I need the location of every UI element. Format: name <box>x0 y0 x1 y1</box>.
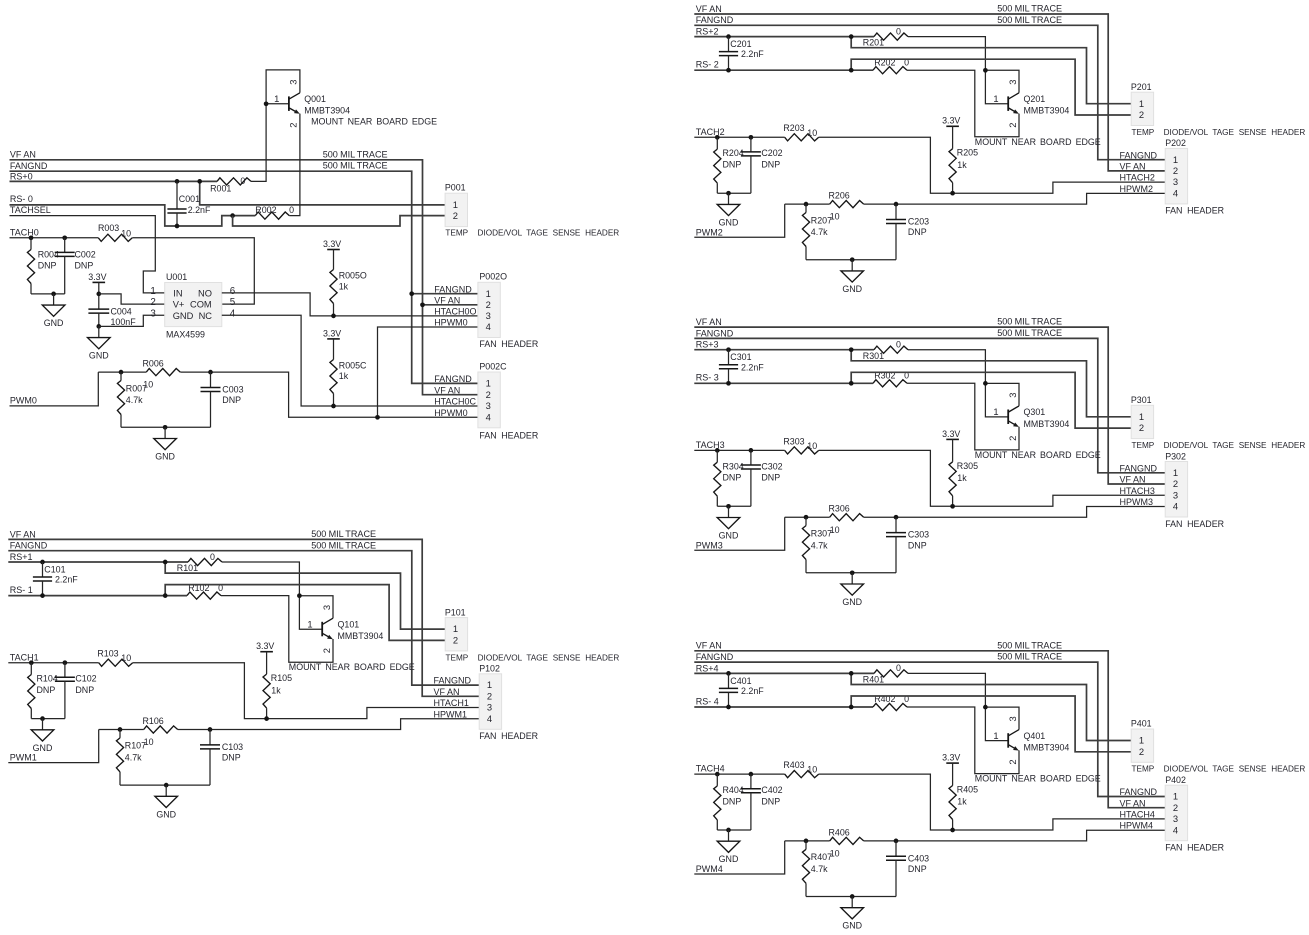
svg-text:RS- 2: RS- 2 <box>696 60 719 70</box>
svg-text:1: 1 <box>993 730 998 741</box>
ground <box>717 506 740 540</box>
wire R202 to Q emitter loop <box>907 70 1019 137</box>
svg-text:FANGND: FANGND <box>434 374 472 384</box>
capacitor C401 2.2nF <box>719 673 764 707</box>
svg-text:P001: P001 <box>445 182 466 192</box>
junction node RS+ / C top <box>726 34 731 39</box>
svg-text:0: 0 <box>896 340 901 350</box>
svg-text:PWM4: PWM4 <box>696 864 723 874</box>
svg-text:DNP: DNP <box>908 540 927 550</box>
wire sense line to P101 pin 2 <box>165 585 445 641</box>
svg-text:R405: R405 <box>957 785 978 795</box>
wire Q collector loop <box>985 383 1019 406</box>
svg-text:3: 3 <box>487 702 492 713</box>
wire net FANGND (channel 3) <box>694 338 1165 472</box>
junction node VF AN <box>420 302 425 307</box>
svg-text:2: 2 <box>150 297 155 308</box>
svg-text:P202: P202 <box>1165 138 1186 148</box>
junction node R206/R207 <box>118 727 123 732</box>
svg-text:4: 4 <box>1173 188 1178 199</box>
wire TACH to header P102 pin 3 <box>133 663 480 719</box>
svg-text:2.2nF: 2.2nF <box>741 686 764 696</box>
svg-text:FANGND: FANGND <box>696 328 734 338</box>
svg-text:5: 5 <box>230 297 236 308</box>
ground <box>155 785 178 819</box>
connector P402 <box>1165 775 1187 841</box>
svg-text:3: 3 <box>1007 393 1018 398</box>
wire sense line to P301 pin 1 <box>851 350 1131 417</box>
wire net RS+3 <box>694 349 874 351</box>
svg-text:P402: P402 <box>1165 775 1186 785</box>
svg-text:4: 4 <box>230 308 236 319</box>
junction node RS+ / C top <box>726 671 731 676</box>
svg-text:500MILTRACE: 500MILTRACE <box>997 640 1062 650</box>
resistor R402 0 ohm <box>873 694 909 710</box>
svg-text:2: 2 <box>1173 165 1178 176</box>
svg-text:500MILTRACE: 500MILTRACE <box>311 529 376 539</box>
wire net VF AN (channel 4) <box>694 651 1165 808</box>
svg-text:VF AN: VF AN <box>434 687 460 697</box>
capacitor C403 DNP <box>886 841 929 897</box>
svg-text:VF AN: VF AN <box>696 317 722 327</box>
svg-text:2.2nF: 2.2nF <box>741 362 764 372</box>
resistor R304 DNP <box>714 450 744 506</box>
svg-text:R203: R203 <box>783 123 804 133</box>
transistor Q201 MMBT3904 <box>1008 93 1019 114</box>
junction node RS+ / C top <box>726 347 731 352</box>
ground <box>42 294 65 328</box>
svg-text:2: 2 <box>288 123 299 128</box>
junction node RS-0 / C001 bottom <box>175 224 180 229</box>
resistor R305 1k pull-up <box>949 439 978 506</box>
svg-text:R201: R201 <box>863 38 884 48</box>
svg-text:3.3V: 3.3V <box>256 641 274 651</box>
svg-text:MOUNTNEARBOARDEDGE: MOUNTNEARBOARDEDGE <box>975 774 1101 784</box>
junction node R006/R007 <box>119 370 124 375</box>
svg-text:2: 2 <box>1139 746 1144 757</box>
svg-text:4: 4 <box>487 713 492 724</box>
wire net TACH4 <box>694 773 784 775</box>
svg-text:FANGND: FANGND <box>434 676 472 686</box>
svg-text:1k: 1k <box>339 282 349 292</box>
svg-text:MAX4599: MAX4599 <box>166 329 205 339</box>
junction node RS- / C bottom <box>726 705 731 710</box>
svg-text:500MILTRACE: 500MILTRACE <box>997 328 1062 338</box>
wire net TACH0 <box>10 237 99 239</box>
wire R202 to Q emitter loop <box>907 707 1019 774</box>
svg-text:R303: R303 <box>783 436 804 446</box>
svg-text:RS+0: RS+0 <box>10 171 33 181</box>
svg-text:Q001: Q001 <box>304 94 326 104</box>
svg-text:P201: P201 <box>1131 82 1152 92</box>
svg-text:NC: NC <box>199 311 213 321</box>
svg-text:FANHEADER: FANHEADER <box>1165 206 1224 216</box>
connector P401 <box>1131 719 1154 763</box>
svg-text:R007: R007 <box>126 383 147 393</box>
svg-text:10: 10 <box>807 441 817 451</box>
svg-text:FANGND: FANGND <box>696 15 734 25</box>
svg-text:HTACH1: HTACH1 <box>434 698 469 708</box>
svg-text:DNP: DNP <box>75 685 94 695</box>
transistor Q101 MMBT3904 <box>322 618 333 639</box>
power 3.3V <box>88 272 106 283</box>
svg-text:PWM3: PWM3 <box>696 540 723 550</box>
svg-text:HTACH0C: HTACH0C <box>434 397 476 407</box>
resistor R003 10 <box>98 223 132 241</box>
wire net PWM3 <box>694 517 784 550</box>
connector P301 <box>1131 395 1154 439</box>
connector P102 <box>479 664 501 730</box>
svg-text:4.7k: 4.7k <box>811 864 828 874</box>
junction node gnd tap 2 <box>163 425 168 430</box>
svg-text:R101: R101 <box>177 563 198 573</box>
junction node R206/R207 <box>804 515 809 520</box>
junction node RS+ / C top <box>40 560 45 565</box>
svg-text:HTACH4: HTACH4 <box>1120 810 1155 820</box>
wire TACH to header P202 pin 3 <box>819 137 1165 193</box>
svg-text:TACHSEL: TACHSEL <box>10 205 51 215</box>
connector P202 <box>1165 138 1187 204</box>
svg-text:1: 1 <box>1139 98 1144 109</box>
wire net PWM1 <box>8 730 98 763</box>
resistor R107 4.7k <box>116 730 146 786</box>
svg-text:FANGND: FANGND <box>10 161 48 171</box>
resistor R306 10 <box>785 504 864 535</box>
wire to P001 pin 2 <box>233 216 446 226</box>
wire net RS- 0 <box>10 205 256 226</box>
svg-text:HPWM4: HPWM4 <box>1120 821 1154 831</box>
junction node R206/C203 <box>894 202 899 207</box>
svg-text:DNP: DNP <box>723 473 742 483</box>
wire RC bottom <box>717 192 751 194</box>
svg-text:1k: 1k <box>957 473 967 483</box>
wire net FANGND (channel 1) <box>8 551 479 685</box>
junction node R206/R207 <box>804 839 809 844</box>
wire net FANGND (channel 2) <box>694 25 1165 159</box>
wire sense line to P401 pin 2 <box>851 696 1131 752</box>
power 3.3V <box>942 116 960 127</box>
svg-text:TACH4: TACH4 <box>696 764 725 774</box>
wire TACH0 to U001 COM <box>132 238 254 304</box>
svg-text:MOUNTNEARBOARDEDGE: MOUNTNEARBOARDEDGE <box>975 137 1101 147</box>
svg-text:R403: R403 <box>783 760 804 770</box>
svg-text:R306: R306 <box>829 504 850 514</box>
svg-text:C303: C303 <box>908 530 929 540</box>
junction node FANGND <box>409 291 414 296</box>
svg-text:2: 2 <box>1173 478 1178 489</box>
svg-text:1: 1 <box>1173 791 1178 802</box>
capacitor C303 DNP <box>886 517 929 573</box>
svg-text:C203: C203 <box>908 217 929 227</box>
junction node R206/C203 <box>894 515 899 520</box>
svg-text:DNP: DNP <box>38 260 57 270</box>
junction node TACH/R <box>715 135 720 140</box>
svg-text:2: 2 <box>1007 759 1018 764</box>
svg-text:VF AN: VF AN <box>1120 475 1146 485</box>
svg-text:FANGND: FANGND <box>1120 787 1158 797</box>
junction node TACH/C <box>749 135 754 140</box>
svg-text:Q401: Q401 <box>1024 731 1046 741</box>
svg-text:VF AN: VF AN <box>434 385 460 395</box>
resistor R006 10 <box>98 359 180 390</box>
junction node base-collector <box>983 705 988 710</box>
svg-text:DNP: DNP <box>37 685 56 695</box>
wire net RS- 2 <box>694 69 873 71</box>
capacitor C004 100nF <box>88 307 136 327</box>
resistor R104 DNP <box>28 663 58 719</box>
svg-text:3: 3 <box>486 400 491 411</box>
ground <box>841 897 864 931</box>
wire net RS+4 <box>694 672 874 674</box>
svg-text:P101: P101 <box>445 607 466 617</box>
svg-text:RS- 0: RS- 0 <box>10 194 33 204</box>
svg-text:PWM0: PWM0 <box>10 396 37 406</box>
svg-text:P401: P401 <box>1131 719 1152 729</box>
resistor R201 0 ohm <box>863 26 908 47</box>
wire R to Q base node <box>908 673 985 707</box>
svg-text:R204: R204 <box>723 148 744 158</box>
svg-text:HPWM2: HPWM2 <box>1120 184 1154 194</box>
wire to header P102 pin 4 <box>178 719 480 730</box>
svg-text:R205: R205 <box>957 148 978 158</box>
junction node 3.3V / V+ <box>96 292 101 297</box>
wire net VF AN (channel 0) <box>10 160 478 395</box>
wire 3.3V to C004 <box>98 282 100 309</box>
svg-text:C403: C403 <box>908 853 929 863</box>
wire net TACH3 <box>694 449 784 451</box>
junction node R005C bottom <box>331 404 336 409</box>
resistor R303 10 <box>783 436 818 454</box>
svg-text:MOUNTNEARBOARDEDGE: MOUNTNEARBOARDEDGE <box>289 662 415 672</box>
svg-text:R004: R004 <box>38 250 59 260</box>
junction node TACH/C <box>749 448 754 453</box>
resistor R407 4.7k <box>802 841 832 897</box>
ground <box>717 193 740 227</box>
svg-text:3: 3 <box>150 308 156 319</box>
wire net RS- 3 <box>694 382 873 384</box>
connector P001 <box>445 182 468 226</box>
wire net FANGND (channel 0) <box>10 171 478 383</box>
svg-text:0: 0 <box>896 663 901 673</box>
svg-text:R104: R104 <box>37 674 58 684</box>
junction node gnd tap 2 <box>850 570 855 575</box>
svg-text:2: 2 <box>1139 422 1144 433</box>
junction node RS- / sense <box>849 381 854 386</box>
resistor R105 1k pull-up <box>263 652 292 719</box>
junction node RS+ / sense <box>849 671 854 676</box>
svg-text:R005O: R005O <box>339 271 367 281</box>
svg-text:C101: C101 <box>44 564 65 574</box>
svg-text:VF AN: VF AN <box>696 4 722 14</box>
svg-text:3.3V: 3.3V <box>942 429 960 439</box>
svg-text:TEMPDIODE/VOLTAGESENSEHEADER: TEMPDIODE/VOLTAGESENSEHEADER <box>1132 441 1306 450</box>
junction node TACH0/R004 <box>29 235 34 240</box>
svg-text:FANGND: FANGND <box>10 541 48 551</box>
junction node R005O bottom <box>331 314 336 319</box>
junction node R206/C203 <box>208 727 213 732</box>
svg-text:500MILTRACE: 500MILTRACE <box>997 652 1062 662</box>
capacitor C301 2.2nF <box>719 350 764 384</box>
ground <box>154 427 177 461</box>
svg-text:MMBT3904: MMBT3904 <box>1024 419 1070 429</box>
junction node RS+0 / sense <box>197 179 202 184</box>
resistor R001 0 ohm <box>210 176 251 193</box>
wire net TACH2 <box>694 136 784 138</box>
wire RC bottom 2 <box>806 572 896 574</box>
connector P002C <box>478 361 507 428</box>
svg-text:4.7k: 4.7k <box>811 227 828 237</box>
wire U001 GND pin 3 <box>99 315 165 326</box>
svg-text:FANHEADER: FANHEADER <box>1165 519 1224 529</box>
svg-text:GND: GND <box>719 531 739 541</box>
connector P302 <box>1165 451 1187 517</box>
svg-text:VF AN: VF AN <box>434 295 460 305</box>
resistor R102 0 ohm <box>187 583 223 599</box>
svg-text:TEMPDIODE/VOLTAGESENSEHEADER: TEMPDIODE/VOLTAGESENSEHEADER <box>445 229 619 238</box>
svg-text:1k: 1k <box>957 160 967 170</box>
svg-text:2: 2 <box>1139 109 1144 120</box>
junction node RS+ / sense <box>163 560 168 565</box>
junction node R bottom / TACH line <box>950 828 955 833</box>
wire Q001 collector loop <box>266 70 300 104</box>
svg-text:500MILTRACE: 500MILTRACE <box>997 4 1062 14</box>
wire Q base <box>985 383 1008 417</box>
svg-text:Q301: Q301 <box>1024 407 1046 417</box>
wire RC bottom 2 <box>121 426 211 428</box>
junction node gnd tap <box>726 828 731 833</box>
svg-text:MOUNTNEARBOARDEDGE: MOUNTNEARBOARDEDGE <box>311 117 437 127</box>
capacitor C002 DNP <box>55 238 96 294</box>
svg-text:0: 0 <box>210 552 215 562</box>
svg-text:TACH1: TACH1 <box>10 652 39 662</box>
svg-text:4: 4 <box>486 321 491 332</box>
junction node R002 <box>230 213 235 218</box>
wire to header P302 pin 4 <box>864 507 1165 518</box>
svg-text:TEMPDIODE/VOLTAGESENSEHEADER: TEMPDIODE/VOLTAGESENSEHEADER <box>1132 128 1306 137</box>
junction node base-collector <box>297 593 302 598</box>
junction node base-collector <box>983 381 988 386</box>
resistor R204 DNP <box>714 137 744 193</box>
capacitor C003 DNP <box>201 372 244 427</box>
svg-text:0: 0 <box>896 26 901 36</box>
svg-text:P102: P102 <box>479 664 500 674</box>
svg-text:DNP: DNP <box>908 227 927 237</box>
resistor R002 0 ohm <box>255 205 294 219</box>
svg-text:P002O: P002O <box>479 272 507 282</box>
svg-text:R001: R001 <box>210 183 231 193</box>
svg-text:GND: GND <box>719 217 739 227</box>
wire U001 NO to HTACH0O <box>222 293 478 316</box>
svg-text:3: 3 <box>1173 489 1178 500</box>
junction node RS+ / sense <box>849 347 854 352</box>
svg-text:VF AN: VF AN <box>696 641 722 651</box>
connector P101 <box>445 607 468 651</box>
svg-text:MMBT3904: MMBT3904 <box>1024 743 1070 753</box>
svg-text:C402: C402 <box>761 785 782 795</box>
wire Q base <box>299 596 322 630</box>
wire sense line to P201 pin 2 <box>851 59 1131 115</box>
svg-text:C001: C001 <box>179 194 200 204</box>
resistor R101 0 ohm <box>177 552 222 573</box>
svg-text:P002C: P002C <box>479 361 507 371</box>
svg-text:R404: R404 <box>723 785 744 795</box>
svg-text:HTACH0O: HTACH0O <box>434 307 476 317</box>
svg-text:10: 10 <box>121 653 131 663</box>
svg-text:3: 3 <box>1007 716 1018 721</box>
ground <box>717 830 740 864</box>
svg-text:RS+1: RS+1 <box>10 552 33 562</box>
wire net RS- 4 <box>694 706 873 708</box>
wire R202 to Q emitter loop <box>221 596 333 663</box>
transistor Q001 MMBT3904 <box>289 93 300 114</box>
resistor R404 DNP <box>714 774 744 830</box>
junction node R006/C003 <box>208 370 213 375</box>
svg-text:2.2nF: 2.2nF <box>55 575 78 585</box>
svg-text:1: 1 <box>307 619 312 630</box>
wire TACH to header P402 pin 3 <box>819 774 1165 830</box>
svg-text:2.2nF: 2.2nF <box>741 49 764 59</box>
svg-text:R206: R206 <box>829 191 850 201</box>
wire net RS+2 <box>694 36 874 38</box>
wire net VF AN (channel 2) <box>694 14 1165 171</box>
wire Q base <box>985 707 1008 741</box>
svg-text:TACH2: TACH2 <box>696 127 725 137</box>
svg-text:10: 10 <box>121 228 131 238</box>
wire V+ to U001 pin 2 <box>99 294 165 304</box>
svg-text:2: 2 <box>1173 802 1178 813</box>
resistor R106 10 <box>99 716 178 747</box>
svg-text:R304: R304 <box>723 461 744 471</box>
svg-text:2: 2 <box>486 389 491 400</box>
svg-text:HPWM0: HPWM0 <box>434 318 468 328</box>
svg-text:R406: R406 <box>829 827 850 837</box>
svg-text:R106: R106 <box>143 716 164 726</box>
svg-text:C004: C004 <box>111 307 132 317</box>
svg-text:4: 4 <box>486 411 491 422</box>
svg-text:1: 1 <box>993 406 998 417</box>
svg-text:RS- 4: RS- 4 <box>696 696 719 706</box>
svg-text:HTACH2: HTACH2 <box>1120 173 1155 183</box>
svg-text:VF AN: VF AN <box>1120 162 1146 172</box>
svg-text:TEMPDIODE/VOLTAGESENSEHEADER: TEMPDIODE/VOLTAGESENSEHEADER <box>1132 765 1306 774</box>
wire net PWM0 <box>10 372 99 406</box>
svg-text:3: 3 <box>486 310 491 321</box>
svg-text:MMBT3904: MMBT3904 <box>304 106 350 116</box>
wire RC bottom 2 <box>806 259 896 261</box>
svg-text:FANHEADER: FANHEADER <box>479 430 538 440</box>
svg-text:R407: R407 <box>811 852 832 862</box>
svg-text:1: 1 <box>487 679 492 690</box>
svg-text:FANHEADER: FANHEADER <box>479 731 538 741</box>
svg-text:Q101: Q101 <box>338 620 360 630</box>
wire TACH to header P302 pin 3 <box>819 450 1165 506</box>
capacitor C201 2.2nF <box>719 37 764 71</box>
svg-text:10: 10 <box>807 765 817 775</box>
capacitor C203 DNP <box>886 204 929 260</box>
wire RC bottom <box>31 293 65 295</box>
svg-text:R005C: R005C <box>339 360 367 370</box>
svg-text:FANHEADER: FANHEADER <box>479 339 538 349</box>
svg-text:RS- 1: RS- 1 <box>10 585 33 595</box>
svg-text:FANGND: FANGND <box>1120 463 1158 473</box>
svg-text:TEMPDIODE/VOLTAGESENSEHEADER: TEMPDIODE/VOLTAGESENSEHEADER <box>446 653 620 662</box>
resistor R301 0 ohm <box>863 340 908 361</box>
resistor R005C 1k pull-up <box>330 339 367 406</box>
resistor R401 0 ohm <box>863 663 908 684</box>
svg-text:500MILTRACE: 500MILTRACE <box>997 317 1062 327</box>
wire net TACH1 <box>8 662 98 664</box>
resistor R004 DNP <box>27 238 59 294</box>
